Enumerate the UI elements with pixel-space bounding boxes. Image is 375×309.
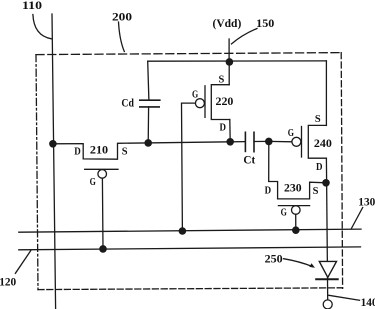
- terminal circle 140: [323, 300, 332, 309]
- junction dot Vdd node: [226, 58, 234, 66]
- capacitor Cd top plate: [140, 99, 160, 101]
- svg-text:130: 130: [358, 195, 375, 209]
- svg-text:200: 200: [112, 10, 132, 24]
- dashed box 200 right edge: [341, 53, 342, 289]
- upper scan bus 130: [19, 229, 361, 232]
- leader from 200 to dashed box: [119, 22, 125, 52]
- junction dot 240 drain / 230 source: [322, 179, 330, 187]
- gate line of transistor 230: [278, 205, 309, 207]
- junction dot 220 gate on upper bus: [179, 227, 187, 235]
- leader from 120 to lower bus: [15, 251, 30, 274]
- mid row wire with transistor 210 channel: [53, 142, 230, 159]
- svg-text:S: S: [313, 185, 319, 197]
- leader from terminal to label 140: [329, 295, 360, 300]
- OLED diode 250 cathode bar: [316, 278, 338, 280]
- svg-text:G: G: [90, 176, 97, 188]
- gate circle of transistor 210: [98, 170, 107, 179]
- transistor 240 drain vertical down to OLED: [326, 158, 327, 300]
- leader from 150 to Vdd stub: [232, 29, 258, 44]
- capacitor Ct left plate: [244, 132, 246, 151]
- svg-text:S: S: [315, 113, 321, 125]
- svg-text:D: D: [316, 161, 323, 173]
- dashed box 200 left edge: [36, 55, 38, 290]
- svg-text:G: G: [281, 206, 288, 218]
- transistor 240 body: [308, 125, 326, 158]
- transistor 220 drain vertical: [229, 120, 231, 142]
- svg-text:120: 120: [0, 275, 16, 289]
- junction dot at data line: [49, 140, 57, 148]
- svg-text:S: S: [219, 74, 225, 86]
- capacitor Ct right plate: [253, 132, 255, 151]
- transistor 230 drain wire from Ct node: [269, 141, 278, 199]
- Vdd supply stub wire: [228, 39, 230, 62]
- capacitor Cd bottom plate: [140, 106, 159, 108]
- arrowhead of 250 leader: [309, 263, 315, 268]
- gate circle of 220: [195, 99, 204, 108]
- svg-text:240: 240: [314, 136, 332, 150]
- svg-text:250: 250: [265, 252, 283, 266]
- data line (node 110): [52, 14, 56, 309]
- wire from Ct right plate to node: [254, 140, 269, 142]
- svg-text:G: G: [288, 127, 295, 139]
- svg-text:D: D: [74, 146, 81, 158]
- OLED diode 250 triangle: [319, 261, 336, 277]
- svg-text:Ct: Ct: [243, 153, 255, 167]
- leader from 250 with arrow to OLED: [284, 259, 313, 267]
- gate circle of 240: [292, 137, 301, 146]
- leader arc from 110 to data line: [33, 15, 51, 39]
- svg-text:S: S: [122, 145, 128, 157]
- top supply wire: [148, 60, 327, 62]
- junction dot Ct right node: [265, 138, 273, 146]
- svg-text:220: 220: [216, 94, 234, 108]
- junction dot 220 drain on row wire: [226, 138, 234, 146]
- gate bar of 220: [204, 86, 206, 118]
- gate line of transistor 210: [85, 168, 118, 170]
- gate wire of 230 down to upper bus: [295, 214, 297, 230]
- svg-text:150: 150: [256, 16, 274, 30]
- junction dot at Cd bottom: [144, 139, 152, 147]
- svg-text:110: 110: [22, 0, 42, 12]
- svg-text:D: D: [220, 122, 227, 134]
- junction dot 210 gate on lower bus: [99, 245, 107, 253]
- transistor 220 source vertical: [228, 62, 230, 85]
- dashed box 200 bottom edge: [38, 288, 343, 290]
- wire from 220 drain dot to capacitor Ct: [230, 141, 245, 143]
- svg-text:D: D: [265, 184, 272, 196]
- svg-text:Cd: Cd: [121, 96, 134, 110]
- gate circle of 230: [292, 206, 301, 215]
- gate wire to transistor 240: [269, 140, 292, 142]
- junction dot 230 gate on upper bus: [292, 226, 300, 234]
- lower scan bus 120: [19, 247, 361, 250]
- transistor 230 channel: [278, 182, 326, 199]
- transistor 220 body: [211, 85, 230, 120]
- gate wire of 210 down to lower bus: [101, 178, 104, 249]
- svg-text:140: 140: [361, 295, 375, 309]
- svg-text:210: 210: [90, 143, 108, 157]
- gate wire of 220 to upper bus: [182, 103, 196, 231]
- gate bar of 240: [301, 127, 303, 158]
- wire from top supply down to capacitor Cd: [148, 61, 149, 100]
- transistor 240 source vertical from top wire: [325, 61, 327, 126]
- dashed box 200 top edge: [36, 53, 341, 55]
- wire from Cd bottom plate to mid row wire: [147, 107, 149, 143]
- leader from 130 to upper bus: [352, 208, 363, 229]
- svg-text:(Vdd): (Vdd): [213, 16, 242, 30]
- svg-text:G: G: [192, 89, 199, 101]
- svg-text:230: 230: [284, 181, 302, 195]
